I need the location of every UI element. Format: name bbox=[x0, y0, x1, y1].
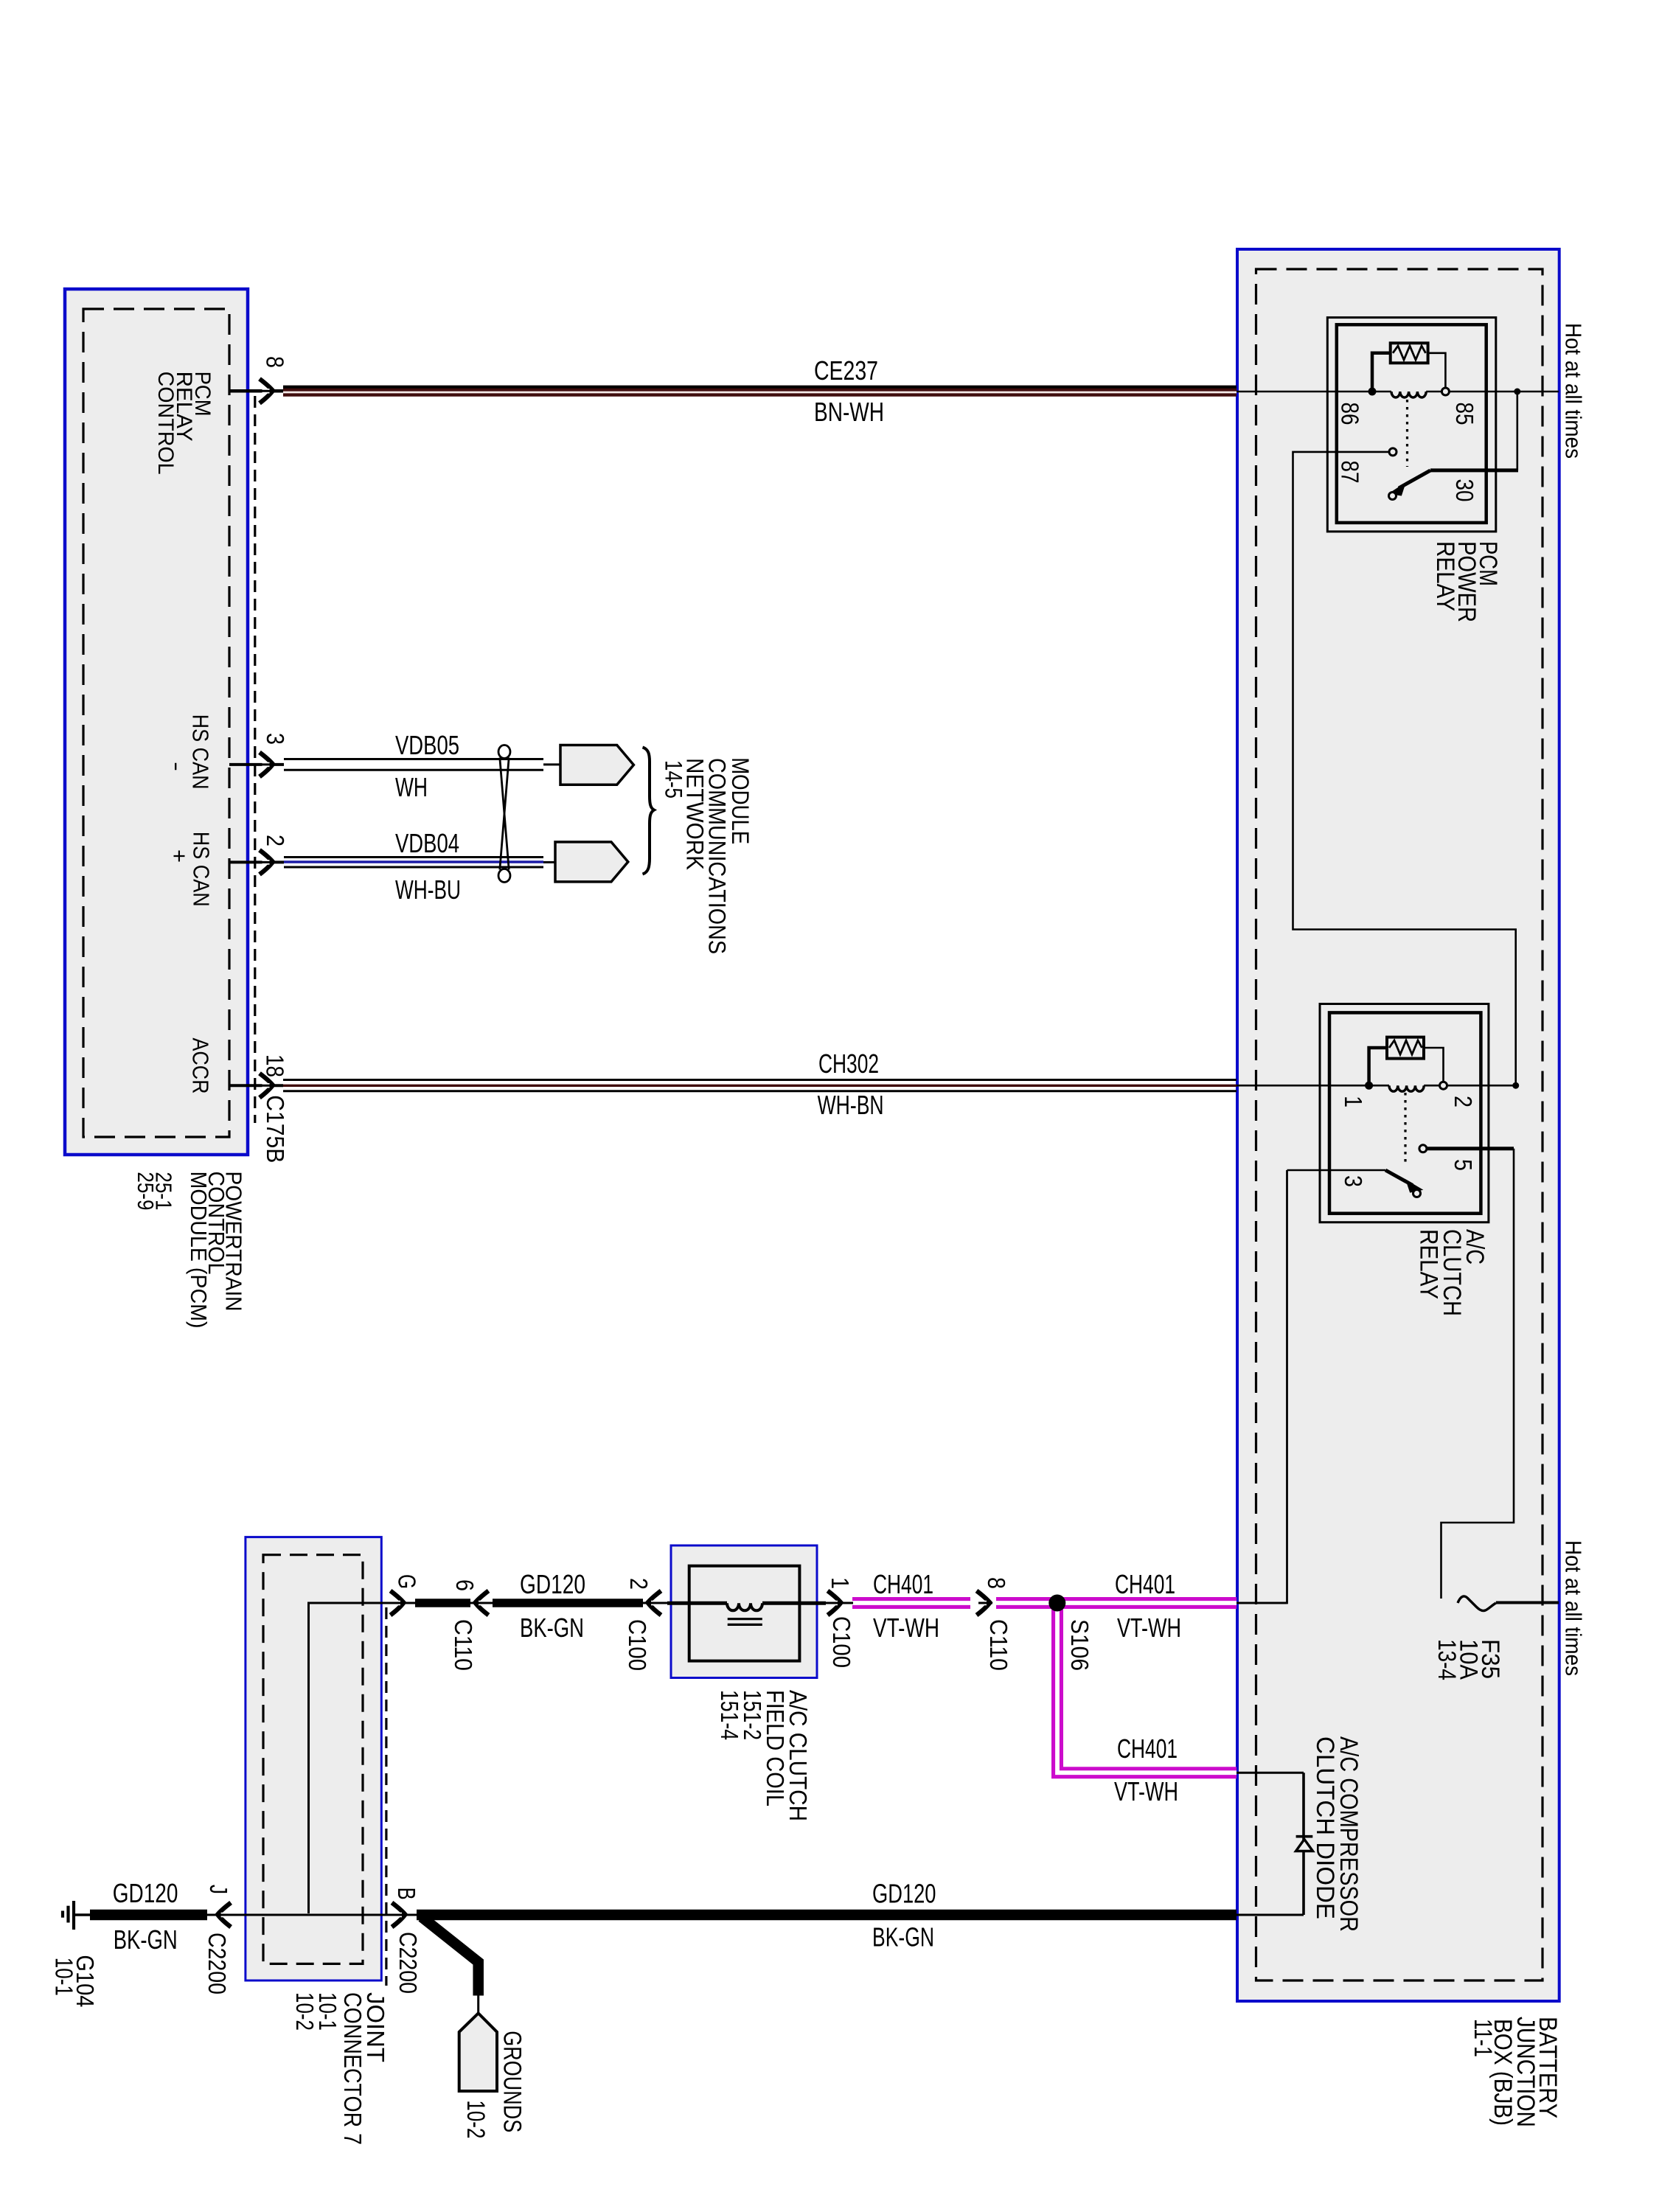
svg-text:BK-GN: BK-GN bbox=[520, 1613, 584, 1643]
connector arrow C2200 pin B bbox=[392, 1903, 406, 1927]
svg-text:30: 30 bbox=[1451, 479, 1478, 502]
wire CH401 S106 branch down and right bbox=[1057, 1603, 1237, 1773]
svg-text:13-4: 13-4 bbox=[1433, 1639, 1461, 1680]
svg-text:Hot at all times: Hot at all times bbox=[1561, 1540, 1587, 1676]
svg-text:J: J bbox=[205, 1885, 232, 1894]
wire GD120 BK-GN from joint connector to BJB bbox=[417, 1910, 1237, 1921]
svg-text:8: 8 bbox=[262, 356, 289, 368]
splice S106 bbox=[1048, 1595, 1065, 1612]
PCM pin 18 stub bbox=[229, 1084, 283, 1087]
connector arrow joint connector pin G bbox=[391, 1591, 404, 1615]
svg-text:2: 2 bbox=[625, 1578, 653, 1590]
PCM power relay resistor left lead bbox=[1372, 353, 1391, 389]
connector arrow PCM pin 3 bbox=[260, 752, 273, 776]
brace for module communications network bbox=[643, 748, 655, 874]
connector C175B dashed line bbox=[254, 396, 256, 1123]
PCM power relay inner box bbox=[1337, 324, 1486, 523]
svg-text:VDB05: VDB05 bbox=[395, 730, 459, 760]
A/C clutch relay resistor right lead bbox=[1424, 1048, 1444, 1082]
wire GD120 BK-GN ground segment bbox=[90, 1910, 207, 1921]
svg-text:GD120: GD120 bbox=[113, 1878, 178, 1908]
A/C clutch relay dotted actuation line bbox=[1404, 1093, 1406, 1164]
svg-text:85: 85 bbox=[1451, 403, 1478, 425]
svg-text:MODULE (PCM): MODULE (PCM) bbox=[186, 1172, 212, 1329]
svg-text:Hot at all times: Hot at all times bbox=[1561, 323, 1587, 459]
PCM pin 8 stub bbox=[229, 389, 283, 393]
svg-text:+: + bbox=[167, 849, 192, 863]
svg-text:8: 8 bbox=[983, 1577, 1010, 1589]
A/C clutch relay pin 1 terminal bbox=[1365, 1082, 1373, 1090]
svg-text:WH-BN: WH-BN bbox=[818, 1090, 884, 1120]
svg-text:HS CAN: HS CAN bbox=[189, 832, 215, 907]
wire junction to pin 30 bbox=[1517, 392, 1519, 470]
A/C clutch field coil box outline bbox=[671, 1545, 817, 1678]
svg-text:CONNECTOR 7: CONNECTOR 7 bbox=[339, 1992, 366, 2145]
A/C clutch relay pin 5 contact bbox=[1419, 1145, 1427, 1152]
svg-text:BK-GN: BK-GN bbox=[872, 1922, 934, 1952]
A/C clutch relay inner box bbox=[1329, 1012, 1481, 1213]
PCM pin 2 stub bbox=[229, 860, 284, 863]
PCM power relay pin 87 contact bbox=[1389, 448, 1397, 456]
battery junction box (BJB) outline bbox=[1237, 249, 1559, 2001]
svg-text:CH401: CH401 bbox=[1115, 1569, 1175, 1599]
wire CH302 WH-BN from PCM pin 18 to BJB bbox=[283, 1079, 1237, 1081]
PCM power relay outer box bbox=[1327, 318, 1496, 532]
svg-text:GD120: GD120 bbox=[520, 1569, 585, 1599]
twisted pair symbol bbox=[498, 745, 510, 759]
svg-text:3: 3 bbox=[1340, 1175, 1367, 1187]
connector arrow C2200 pin J bbox=[218, 1903, 231, 1927]
wire CH401 inside BJB lower bbox=[1237, 1772, 1304, 1774]
svg-text:RELAY: RELAY bbox=[1431, 541, 1459, 611]
CH302 wire inside BJB to A/C clutch relay coil bbox=[1237, 1085, 1376, 1087]
joint connector internal bus bbox=[309, 1603, 382, 1913]
svg-text:10-2: 10-2 bbox=[291, 1992, 319, 2031]
wire GD120 inside BJB bbox=[1237, 1914, 1304, 1916]
network connector arrow 1 bbox=[560, 745, 633, 785]
svg-text:WH-BU: WH-BU bbox=[395, 874, 461, 905]
connector C2200 dashed line bbox=[385, 1607, 387, 1986]
A/C clutch relay coil winding bbox=[1389, 1085, 1424, 1091]
wire pin 5 to fuse F35 bbox=[1427, 1147, 1514, 1150]
wire CE237 BN-WH from PCM pin 8 to BJB bbox=[283, 386, 1237, 397]
connector arrow PCM pin 2 bbox=[260, 850, 273, 874]
svg-text:6: 6 bbox=[451, 1579, 479, 1591]
svg-text:2: 2 bbox=[1450, 1096, 1477, 1107]
PCM power relay dotted actuation line bbox=[1406, 400, 1408, 467]
A/C clutch field coil winding bbox=[727, 1603, 762, 1610]
PCM pin 3 stub bbox=[229, 763, 284, 766]
svg-text:87: 87 bbox=[1337, 461, 1364, 484]
svg-text:G: G bbox=[394, 1574, 421, 1589]
PCM inner dashed border bbox=[83, 309, 229, 1137]
grounds branch wire bbox=[422, 1917, 479, 1996]
svg-text:1: 1 bbox=[1340, 1096, 1367, 1107]
A/C compressor clutch diode branch bbox=[1302, 1773, 1305, 1915]
node: junction right of pin 85 bbox=[1514, 389, 1520, 395]
wire CH401 VT-WH from field coil to S106 and BJB bbox=[852, 1597, 970, 1609]
A/C clutch relay resistor left lead bbox=[1369, 1048, 1387, 1083]
wire pin 87 to A/C clutch relay coil junction bbox=[1293, 452, 1516, 1082]
ground symbol G104 bbox=[74, 1913, 91, 1916]
svg-text:11-1: 11-1 bbox=[1469, 2019, 1497, 2057]
svg-text:C100: C100 bbox=[624, 1619, 651, 1671]
svg-text:GROUNDS: GROUNDS bbox=[498, 2031, 526, 2132]
svg-text:18: 18 bbox=[262, 1054, 289, 1077]
PCM power relay movable contact bbox=[1389, 493, 1397, 500]
node: junction right of pin 2 bbox=[1512, 1082, 1519, 1089]
svg-text:RELAY: RELAY bbox=[1415, 1229, 1443, 1299]
svg-text:3: 3 bbox=[262, 733, 289, 745]
svg-text:B: B bbox=[393, 1888, 420, 1900]
A/C clutch relay armature (pin 3 switch) bbox=[1385, 1170, 1413, 1186]
PCM power relay resistor bbox=[1391, 343, 1428, 363]
svg-text:HS CAN: HS CAN bbox=[188, 714, 214, 790]
svg-text:CONTROL: CONTROL bbox=[153, 372, 178, 475]
A/C clutch relay outer box bbox=[1320, 1004, 1489, 1222]
svg-text:C2200: C2200 bbox=[394, 1932, 422, 1994]
wire VDB04 WH-BU from PCM pin 2 bbox=[284, 856, 543, 858]
svg-text:BK-GN: BK-GN bbox=[114, 1924, 178, 1955]
connector arrow C100 pin 1 bbox=[828, 1591, 841, 1615]
svg-text:CE237: CE237 bbox=[814, 355, 878, 386]
svg-text:S106: S106 bbox=[1066, 1619, 1093, 1671]
svg-text:ACCR: ACCR bbox=[188, 1038, 214, 1094]
PCM power relay pin 86 terminal bbox=[1368, 388, 1377, 396]
wire into A/C clutch field coil bbox=[667, 1601, 727, 1605]
svg-text:VT-WH: VT-WH bbox=[873, 1613, 939, 1643]
svg-text:CLUTCH DIODE: CLUTCH DIODE bbox=[1311, 1736, 1339, 1919]
svg-text:WH: WH bbox=[395, 772, 428, 802]
joint connector 7 box outline bbox=[246, 1537, 381, 1980]
PCM power relay resistor right lead bbox=[1428, 353, 1446, 388]
A/C clutch relay resistor bbox=[1387, 1037, 1424, 1059]
svg-text:VT-WH: VT-WH bbox=[1114, 1776, 1178, 1806]
grounds connector pentagon bbox=[459, 2013, 497, 2091]
connector arrow C110 pin 6 bbox=[476, 1591, 489, 1615]
connector arrow C100 pin 2 bbox=[648, 1591, 661, 1615]
PCM power relay armature (pin 30 switch) bbox=[1399, 470, 1430, 488]
connector arrow PCM pin 18 C175B bbox=[260, 1074, 273, 1098]
wire CH401 inside BJB upper bbox=[1237, 1602, 1287, 1604]
svg-text:C175B: C175B bbox=[262, 1095, 289, 1163]
A/C clutch relay movable contact bbox=[1413, 1190, 1421, 1197]
BJB inner dashed border bbox=[1256, 269, 1543, 1980]
svg-text:C100: C100 bbox=[828, 1616, 855, 1668]
connector arrow PCM pin 8 bbox=[260, 379, 273, 403]
svg-text:VDB04: VDB04 bbox=[395, 828, 459, 858]
wire GD120 top segment through connectors C110 C100 bbox=[381, 1602, 727, 1604]
A/C clutch field coil core lines bbox=[728, 1618, 762, 1620]
A/C clutch relay pin 3 wire bbox=[1287, 1169, 1386, 1172]
svg-text:C2200: C2200 bbox=[204, 1933, 231, 1994]
svg-text:86: 86 bbox=[1337, 403, 1364, 425]
A/C compressor clutch diode symbol bbox=[1296, 1835, 1313, 1838]
svg-text:CH401: CH401 bbox=[1117, 1733, 1178, 1764]
wire pin 3 down to CH401 bbox=[1237, 1170, 1287, 1603]
svg-text:BN-WH: BN-WH bbox=[814, 397, 884, 427]
svg-text:14-5: 14-5 bbox=[661, 760, 687, 799]
joint connector inner dashed border bbox=[263, 1555, 363, 1964]
PCM power relay pin 85 terminal bbox=[1441, 388, 1449, 395]
svg-text:CH401: CH401 bbox=[873, 1569, 933, 1599]
svg-text:10-2: 10-2 bbox=[462, 2100, 490, 2138]
svg-text:C110: C110 bbox=[985, 1619, 1012, 1671]
svg-text:-: - bbox=[164, 762, 190, 771]
svg-text:151-4: 151-4 bbox=[716, 1690, 743, 1740]
A/C clutch field coil inner box bbox=[689, 1566, 800, 1661]
wire through joint connector (thin) bbox=[207, 1914, 1237, 1916]
svg-text:2: 2 bbox=[262, 835, 289, 846]
svg-text:10-1: 10-1 bbox=[51, 1958, 78, 1996]
stub to pin 1 arrow of field coil bbox=[826, 1602, 853, 1604]
svg-text:C110: C110 bbox=[450, 1619, 477, 1671]
stub from twisted pair to network connector 1 bbox=[543, 763, 560, 765]
svg-text:GD120: GD120 bbox=[872, 1879, 936, 1909]
powertrain control module (PCM) box outline bbox=[65, 289, 248, 1155]
wire VDB05 WH from PCM pin 3 bbox=[284, 758, 543, 760]
A/C clutch relay pin 2 terminal bbox=[1440, 1082, 1447, 1089]
svg-text:25-9: 25-9 bbox=[133, 1172, 159, 1210]
network connector arrow 2 bbox=[555, 842, 628, 882]
svg-text:CH302: CH302 bbox=[818, 1048, 879, 1079]
svg-text:1: 1 bbox=[827, 1577, 854, 1589]
svg-text:VT-WH: VT-WH bbox=[1117, 1613, 1181, 1643]
connector arrow C110 pin 8 bbox=[977, 1591, 990, 1615]
fuse F35 element bbox=[1458, 1596, 1496, 1611]
stub from twisted pair to network connector 2 bbox=[543, 861, 555, 863]
CE237 wire inside BJB to PCM power relay coil bbox=[1237, 391, 1376, 393]
svg-text:5: 5 bbox=[1450, 1159, 1477, 1171]
PCM power relay coil winding bbox=[1391, 392, 1426, 397]
